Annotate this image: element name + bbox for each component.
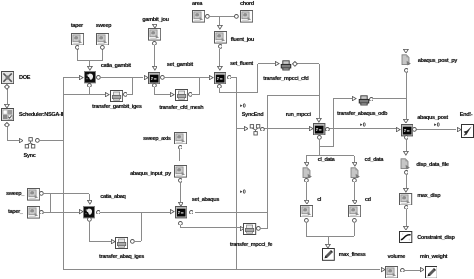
svg-text:0: 0 [243, 189, 246, 194]
svg-text:0: 0 [243, 103, 246, 108]
svg-text:0: 0 [436, 122, 439, 127]
svg-text:0: 0 [363, 122, 366, 127]
